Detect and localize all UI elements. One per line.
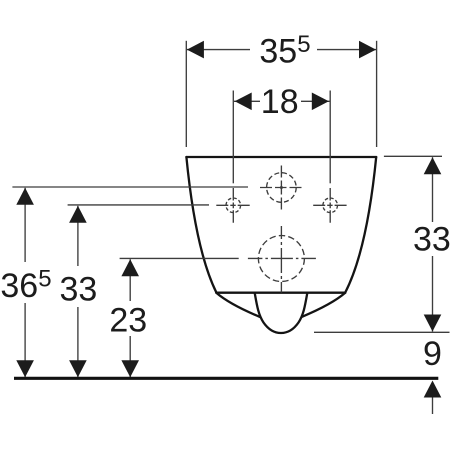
water supply hole horizontal centerline bbox=[260, 187, 302, 189]
dim 35.5 arrow right bbox=[359, 41, 376, 59]
dim 18 text mask bbox=[260, 87, 301, 115]
dim 33 left line lower bbox=[77, 307, 79, 377]
water supply hole vertical centerline bbox=[280, 166, 282, 210]
svg-text:23: 23 bbox=[109, 302, 147, 340]
dim 18 extension line right bbox=[329, 91, 331, 184]
water supply hole circle bbox=[267, 173, 297, 203]
dim 35.5 text mask bbox=[250, 36, 317, 63]
dim 33 left arrow down bbox=[69, 360, 87, 377]
dim 33 right line lower bbox=[432, 256, 434, 332]
outlet hole vertical centerline bbox=[280, 226, 282, 293]
dim 36.5 line upper bbox=[24, 188, 26, 262]
bowl bottom shelf line bbox=[216, 292, 345, 294]
bowl top edge bbox=[186, 156, 376, 158]
outlet hole horizontal centerline bbox=[248, 257, 316, 259]
bowl bottom left arc bbox=[216, 293, 259, 317]
outlet hole circle bbox=[258, 236, 304, 282]
dim 18 arrow right bbox=[312, 93, 329, 111]
dim 9 arrow stem bbox=[432, 398, 434, 415]
dim 23 arrow down bbox=[121, 360, 139, 377]
dim 33 right arrow up bbox=[424, 157, 442, 174]
dim 33 left line upper bbox=[77, 206, 79, 266]
floor line bbox=[14, 377, 438, 380]
dim 33 right arrow down bbox=[424, 315, 442, 332]
dim 35.5 line bbox=[187, 49, 376, 51]
dim 23 line upper bbox=[129, 259, 131, 301]
dim 23 extension line bbox=[120, 257, 239, 259]
bowl left side bbox=[186, 157, 216, 292]
dim 33 left extension line bbox=[68, 204, 209, 206]
dim 36.5 arrow down bbox=[16, 360, 34, 377]
dim 18 extension line left bbox=[232, 91, 234, 184]
dim 33 right top extension line bbox=[384, 155, 442, 157]
svg-text:9: 9 bbox=[423, 335, 442, 373]
dim 35.5 arrow left bbox=[187, 41, 204, 59]
dim 33 right line upper bbox=[432, 157, 434, 222]
dim 18 arrow left bbox=[235, 93, 252, 111]
svg-text:33: 33 bbox=[413, 221, 450, 259]
bowl right side bbox=[345, 157, 376, 292]
dim 23 line lower bbox=[129, 336, 131, 377]
dim 33 right bottom extension line bbox=[314, 331, 450, 333]
dim 23 arrow up bbox=[121, 259, 139, 276]
mounting hole right circle bbox=[323, 198, 338, 213]
dim 36.5 arrow up bbox=[16, 188, 34, 205]
svg-text:33: 33 bbox=[60, 271, 98, 309]
dim 35.5 extension line left bbox=[185, 41, 187, 147]
svg-text:18: 18 bbox=[261, 83, 299, 121]
water supply hole center dot bbox=[280, 186, 283, 189]
mounting hole left horizontal centerline bbox=[216, 204, 249, 206]
dim 35.5 extension line right bbox=[376, 41, 378, 147]
mounting hole left circle bbox=[226, 198, 241, 213]
outlet U shape bbox=[255, 294, 307, 334]
mounting hole right vertical centerline bbox=[329, 188, 331, 223]
bowl bottom right arc bbox=[302, 293, 345, 317]
dim 33 left arrow up bbox=[69, 206, 87, 223]
dim 36.5 extension line bbox=[12, 186, 248, 188]
mounting hole right horizontal centerline bbox=[313, 204, 346, 206]
dim 36.5 line lower bbox=[24, 303, 26, 377]
dim 9 arrow up below floor bbox=[424, 381, 442, 398]
mounting hole left vertical centerline bbox=[232, 188, 234, 223]
dim 18 line bbox=[234, 100, 330, 102]
